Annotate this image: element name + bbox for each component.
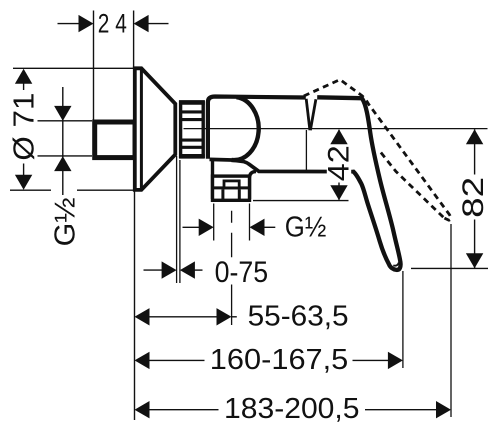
dim 183-200,5 line <box>148 409 438 411</box>
body bottom edge with step <box>210 159 355 171</box>
extension line lever tip (82) <box>411 267 488 269</box>
arrow 0-75 right <box>180 261 195 278</box>
arrow G1/2 outlet right <box>250 219 265 236</box>
svg-text:Ø 71: Ø 71 <box>8 93 40 161</box>
lever handle solid <box>354 98 401 270</box>
svg-text:82: 82 <box>457 177 490 218</box>
svg-text:183-200,5: 183-200,5 <box>224 393 360 425</box>
svg-text:42: 42 <box>322 145 355 181</box>
arrow dia71 down <box>15 175 32 190</box>
arrow 42 up <box>330 129 347 144</box>
adjusting ring ribs <box>181 102 204 156</box>
extension line wall face (24 right) <box>133 11 135 69</box>
extension line escutcheon bottom (dia71) <box>10 189 51 191</box>
mask 183-200,5 <box>219 396 366 425</box>
center line horizontal <box>184 128 488 130</box>
arrow 82 up <box>466 129 483 144</box>
mask 42 <box>327 143 351 183</box>
outlet neck right with fillet <box>250 172 257 200</box>
svg-text:G½: G½ <box>285 212 327 244</box>
escutcheon cone <box>135 68 176 190</box>
svg-text:160-167,5: 160-167,5 <box>210 344 348 376</box>
arrow 55-63,5 right <box>217 308 232 325</box>
body top edge and ball flat left edge <box>208 97 306 159</box>
arrow 55-63,5 left <box>135 308 150 325</box>
arrow 183-200,5 left <box>135 401 150 418</box>
mask 82 <box>462 175 488 220</box>
dim 82 line <box>474 129 476 268</box>
extension line wall face lower <box>134 190 136 420</box>
extension line outlet bottom (42) <box>253 200 349 202</box>
dim G1/2 outlet tails <box>183 226 200 228</box>
outlet center chain line <box>231 211 233 325</box>
arrow G1/2 outlet left <box>199 219 214 236</box>
arrow 0-75 left <box>162 261 177 278</box>
extension line inlet bottom <box>38 155 93 157</box>
dim G1/2 inlet vertical line <box>62 87 64 195</box>
handle cap top <box>317 95 361 100</box>
extension line inlet top <box>38 120 93 122</box>
arrow dia71 up <box>15 69 32 84</box>
arrow 160-167,5 left <box>135 352 150 369</box>
extension line escutcheon top (dia71) <box>13 67 134 69</box>
svg-text:G½: G½ <box>49 197 81 246</box>
arrow 183-200,5 right <box>436 401 451 418</box>
dim 0-75 tails <box>144 269 163 271</box>
arrow G1/2 inlet down <box>54 106 71 121</box>
arrow 82 down <box>466 253 483 268</box>
extension line solid lever tip <box>402 271 404 368</box>
mask 160-167,5 <box>205 347 353 375</box>
outlet neck left <box>211 161 214 199</box>
dim 24 right tail <box>147 23 169 25</box>
svg-text:2 4: 2 4 <box>98 9 127 39</box>
arrow 24 left <box>79 15 94 32</box>
outlet hex nut <box>213 176 250 200</box>
dim 24 left tail <box>58 23 81 25</box>
lever handle raised dashed <box>304 80 451 221</box>
arrow 160-167,5 right <box>388 352 403 369</box>
svg-text:55-63,5: 55-63,5 <box>248 300 349 332</box>
escutcheon flange inner line <box>140 68 143 190</box>
valve ball body <box>232 97 259 160</box>
arrow 42 down <box>330 185 347 200</box>
lever tip inner arc <box>393 263 399 266</box>
dim 55-63,5 line <box>148 316 218 318</box>
arrow G1/2 inlet up <box>54 156 71 171</box>
handle notch wedge <box>306 99 310 130</box>
arrow 24 right <box>134 15 149 32</box>
dim dia71 line segments <box>23 83 25 90</box>
extension line dashed lever tip <box>450 224 452 417</box>
body seam line <box>305 130 307 171</box>
0-75 extension line pair <box>176 156 178 283</box>
outlet G1/2 extension lines <box>213 204 215 241</box>
dim 42 line <box>338 130 340 200</box>
inlet square connector <box>95 122 135 158</box>
dim 160-167,5 line <box>148 359 389 361</box>
extension line from pipe face (24 left) <box>93 11 95 120</box>
svg-text:0-75: 0-75 <box>215 256 269 289</box>
